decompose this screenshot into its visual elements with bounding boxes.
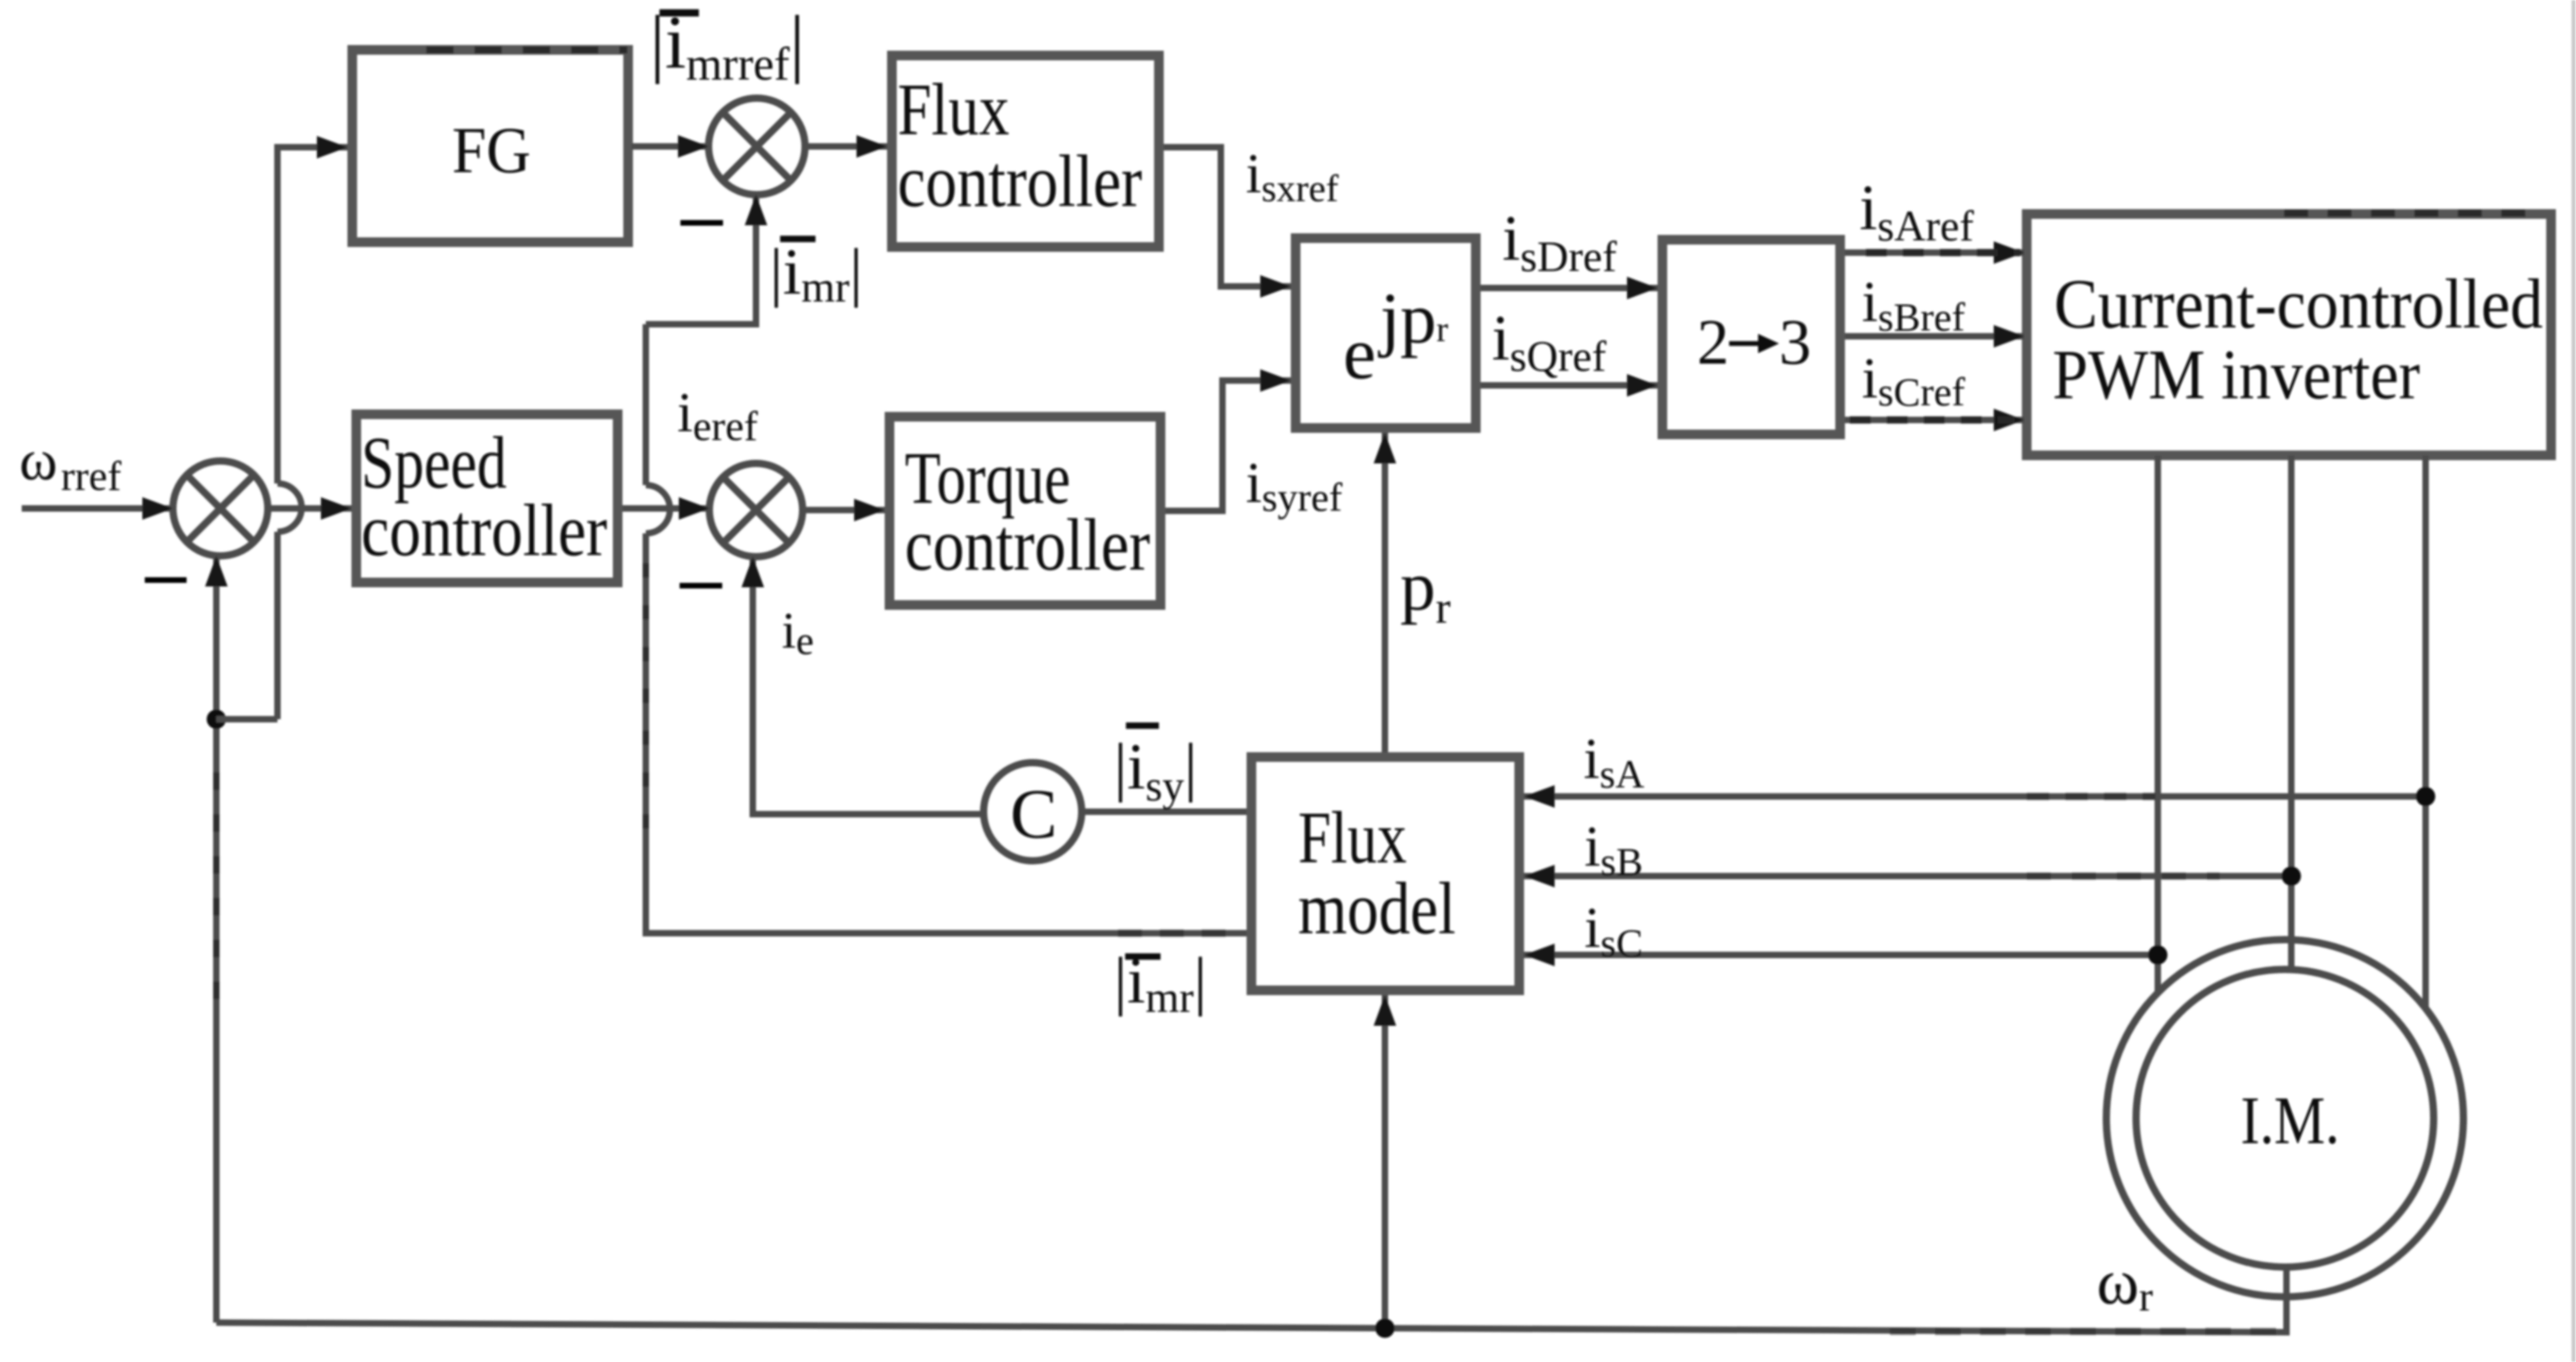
label isy magnitude xyxy=(1126,722,1159,729)
arrow into Flux controller xyxy=(857,135,887,158)
wire isBref xyxy=(1845,333,2024,339)
svg-text:controller: controller xyxy=(905,504,1150,586)
wire isC measurement xyxy=(1524,952,2158,958)
arrow isB into Flux model xyxy=(1524,865,1555,887)
arrow into SJ1 bottom xyxy=(205,556,228,586)
wire isQref xyxy=(1481,382,1658,389)
arrow into SJ2 xyxy=(678,135,709,158)
wire SJ2 to Flux controller xyxy=(805,143,887,150)
scan artifact dashes on imr vertical xyxy=(643,563,649,853)
arrow isxref into e^jpr xyxy=(1260,275,1291,298)
block Speed controller xyxy=(356,414,618,582)
block Flux model xyxy=(1251,757,1519,990)
svg-text:C: C xyxy=(1010,776,1058,854)
arrow isDref into 2-3 xyxy=(1627,277,1658,299)
svg-text:2: 2 xyxy=(1697,307,1729,378)
minus sign at SJ3 xyxy=(680,583,722,589)
scan artifact dashes on imr line xyxy=(1118,930,1243,937)
scan artifact dashes on inverter top border xyxy=(2284,210,2525,217)
wire feedback branch up to FG (with hop) xyxy=(277,147,347,719)
svg-text:Flux: Flux xyxy=(1298,796,1407,879)
wire Torque controller to e^jpr xyxy=(1165,381,1291,511)
hop arc over speed-error line xyxy=(277,483,302,532)
wire speed feedback vertical xyxy=(213,556,220,1323)
label imr magnitude at Flux model xyxy=(1125,953,1161,960)
wire isA measurement xyxy=(1524,793,2426,800)
wire SJ3 to Torque controller xyxy=(803,507,885,513)
induction motor I.M. xyxy=(2106,940,2463,1297)
svg-text:e: e xyxy=(1343,312,1376,394)
arrow pr into e^jpr bottom xyxy=(1374,433,1396,463)
arrow into FG xyxy=(317,136,347,158)
minus sign at SJ1 xyxy=(145,578,187,583)
arrow omega_r into Flux model bottom xyxy=(1374,995,1396,1026)
scan artifact dashes on isCref line xyxy=(1850,417,2015,424)
arrow isAref into inverter xyxy=(1994,241,2024,264)
label imr magnitude at SJ2 xyxy=(780,236,816,242)
wire jog from dot to FG branch xyxy=(216,716,277,722)
scan artifact dashes on left feedback vertical xyxy=(213,772,220,1014)
scan artifact dashes on bottom feedback line xyxy=(1890,1328,2280,1335)
wire inverter phase C vertical xyxy=(2422,455,2429,1010)
wire isDref xyxy=(1481,285,1658,291)
arrow into SJ3 bottom xyxy=(742,557,764,587)
wire imr vertical from flux model (with hop) xyxy=(646,324,1247,933)
arrow into SJ2 bottom xyxy=(745,195,767,225)
svg-text:Flux: Flux xyxy=(898,68,1009,150)
wire bottom omega_r feedback xyxy=(216,1267,2286,1332)
hop arc over ieref line xyxy=(646,485,670,533)
junction dot isB xyxy=(2282,866,2301,886)
block Current-controlled PWM inverter xyxy=(2027,214,2551,455)
wire Flux controller to e^jpr xyxy=(1164,147,1291,286)
block Torque controller xyxy=(889,417,1161,605)
junction dot omega_r tap xyxy=(1375,1319,1395,1338)
block FG xyxy=(352,50,628,242)
wire C to Flux model xyxy=(1082,809,1247,815)
scan page edge right xyxy=(2572,0,2576,1362)
block e^jpr rotation xyxy=(1296,238,1476,428)
summing junction SJ2 (flux error) xyxy=(709,98,805,195)
arrow isBref into inverter xyxy=(1994,325,2024,348)
arrow into Torque controller xyxy=(854,499,885,521)
wire inverter phase A vertical xyxy=(2155,455,2161,992)
label imrref magnitude xyxy=(659,10,699,17)
summing junction SJ1 (speed error) xyxy=(173,461,268,556)
wire omega_rref input xyxy=(22,505,173,512)
wire Speed controller to SJ3 xyxy=(622,505,709,512)
svg-text:controller: controller xyxy=(361,489,607,571)
svg-text:FG: FG xyxy=(452,113,531,187)
arrow isQref into 2-3 xyxy=(1627,374,1658,397)
block Flux controller xyxy=(892,56,1159,247)
wire omega_r up into Flux model xyxy=(1382,995,1388,1328)
svg-text:model: model xyxy=(1298,867,1456,949)
wire isAref xyxy=(1845,249,2024,256)
scan artifact dashes on isAref line xyxy=(1866,249,2020,257)
wire isCref xyxy=(1845,417,2024,423)
block 2-to-3 phase transform xyxy=(1662,240,1840,434)
arrow isCref into inverter xyxy=(1994,409,2024,431)
svg-text:3: 3 xyxy=(1779,307,1811,378)
svg-text:PWM inverter: PWM inverter xyxy=(2052,336,2420,414)
arrow isC into Flux model xyxy=(1524,944,1555,966)
junction dot isC xyxy=(2148,945,2167,965)
minus sign at SJ2 xyxy=(680,220,723,226)
svg-text:I.M.: I.M. xyxy=(2241,1083,2340,1158)
scan artifact dashes on FG top border xyxy=(426,47,627,54)
svg-text:controller: controller xyxy=(898,140,1142,222)
wire ie into SJ3 bottom xyxy=(753,557,984,814)
wire imr into SJ2 bottom xyxy=(646,195,756,324)
wire pr from Flux model to e^jpr xyxy=(1382,433,1388,752)
arrow isA into Flux model xyxy=(1524,785,1555,808)
wire isB measurement xyxy=(1524,873,2291,879)
junction dot isA xyxy=(2416,787,2435,806)
junction dot feedback branch xyxy=(207,710,226,729)
svg-text:Current-controlled: Current-controlled xyxy=(2054,265,2543,344)
summing junction SJ3 (magnetizing-current error) xyxy=(709,463,803,557)
scan artifact dashes on isA line xyxy=(2027,793,2155,800)
arrow isyref into e^jpr xyxy=(1260,369,1291,392)
gain block C xyxy=(984,763,1082,861)
wire FG output xyxy=(631,143,709,150)
wire inverter phase B vertical xyxy=(2288,455,2295,969)
wire SJ1 to Speed controller xyxy=(268,505,351,512)
arrow into SJ3 xyxy=(679,497,709,520)
arrow into Speed controller xyxy=(321,497,351,520)
scan artifact dashes on isB line xyxy=(2027,873,2220,880)
arrow into SJ1 xyxy=(142,497,173,520)
